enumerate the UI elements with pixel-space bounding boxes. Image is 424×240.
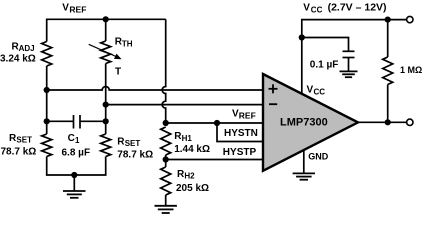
terminal VCC input circle: [407, 16, 413, 22]
svg-text:REF: REF: [239, 110, 256, 120]
node dot HYSTN branch: [214, 120, 220, 126]
svg-text:SET: SET: [125, 139, 141, 148]
svg-text:(2.7V – 12V): (2.7V – 12V): [328, 2, 387, 14]
svg-text:1.44 kΩ: 1.44 kΩ: [174, 144, 210, 155]
wire RTH top lead: [105, 19, 107, 41]
resistor RADJ: [42, 42, 52, 67]
capacitor 0.1uF: [343, 50, 355, 52]
svg-text:REF: REF: [69, 5, 86, 15]
wire VCC rail: [302, 20, 407, 94]
wire cap branch: [302, 38, 349, 52]
node VREF label: [62, 3, 86, 15]
svg-text:CC: CC: [311, 5, 323, 14]
svg-text:C: C: [68, 133, 75, 144]
svg-text:SET: SET: [16, 136, 32, 145]
svg-text:HYSTP: HYSTP: [223, 147, 257, 158]
label C1 value: [62, 133, 91, 159]
label HYSTP pin: [223, 147, 257, 158]
resistor RSET right: [101, 134, 111, 157]
wire HYSTP pin: [166, 159, 263, 161]
ground left: [63, 191, 86, 198]
wire bottom joining RSETs: [47, 157, 106, 176]
pin + symbol: [269, 84, 278, 93]
node dot RADJ / + wire: [44, 87, 50, 93]
svg-text:T: T: [115, 67, 121, 78]
svg-text:V: V: [303, 2, 310, 13]
resistor RH1: [161, 127, 171, 155]
svg-text:LMP7300: LMP7300: [280, 117, 328, 129]
node VCC label: [303, 2, 386, 15]
label GND pin: [308, 151, 329, 161]
resistor RTH thermistor: [101, 41, 111, 64]
label 1M: [400, 65, 422, 75]
resistor RSET left: [42, 134, 52, 157]
svg-text:H1: H1: [182, 134, 193, 143]
svg-text:1: 1: [75, 136, 80, 145]
label RADJ value: [0, 41, 36, 64]
resistor 1M pullup: [387, 20, 389, 57]
node dot VCC/cap branch: [299, 34, 305, 40]
op-amp U1 LMP7300 comparator: [263, 74, 358, 171]
svg-text:3.24 kΩ: 3.24 kΩ: [0, 54, 36, 65]
label VREF pin: [232, 108, 256, 120]
wire + input (hops over RTH column): [47, 87, 263, 91]
label 0.1uF: [310, 60, 339, 71]
ground RH2: [155, 206, 177, 213]
terminal output circle: [407, 119, 413, 125]
node dot VCC/1M: [385, 17, 391, 23]
capacitor C1: [47, 120, 74, 122]
wire RTH bottom lead: [105, 64, 107, 135]
svg-text:205 kΩ: 205 kΩ: [176, 183, 209, 194]
label RSET left value: [1, 133, 37, 158]
svg-text:TH: TH: [122, 39, 133, 48]
ground capacitor: [340, 71, 358, 77]
node dot bottom: [71, 172, 77, 178]
svg-text:V: V: [307, 85, 314, 96]
node dot output/1M: [385, 119, 391, 125]
label RTH: [115, 37, 133, 78]
label LMP7300: [280, 117, 328, 129]
wire GND stem: [303, 150, 305, 173]
wire - input: [106, 104, 263, 106]
label VCC pin: [307, 85, 326, 97]
thermistor arrow: [89, 44, 116, 56]
node dot RH1/RH2: [163, 156, 169, 162]
label RSET right value: [117, 136, 153, 160]
wire RADJ bottom lead: [46, 66, 48, 134]
node dot C1 right: [103, 118, 109, 124]
resistor RH2: [165, 160, 167, 168]
svg-text:78.7 kΩ: 78.7 kΩ: [117, 150, 153, 161]
svg-text:GND: GND: [308, 151, 329, 161]
svg-text:V: V: [62, 3, 69, 14]
svg-text:6.8 µF: 6.8 µF: [62, 147, 91, 158]
svg-text:HYSTN: HYSTN: [224, 128, 258, 139]
svg-text:H2: H2: [184, 172, 195, 181]
wire output: [358, 121, 407, 123]
svg-text:0.1 µF: 0.1 µF: [310, 60, 339, 71]
pin - symbol: [269, 103, 277, 105]
node dot C1 left: [44, 118, 50, 124]
svg-text:78.7 kΩ: 78.7 kΩ: [1, 147, 37, 158]
label HYSTN pin: [224, 128, 258, 139]
node dot RTH / - wire: [103, 102, 109, 108]
wire VREF vertical (hops over + and - wires): [162, 19, 166, 123]
wire VREF top rail: [47, 19, 166, 41]
wire HYSTN pin: [217, 123, 263, 142]
ground comparator: [293, 173, 315, 179]
svg-text:1 MΩ: 1 MΩ: [400, 65, 422, 75]
svg-text:CC: CC: [314, 88, 326, 97]
node junction dot top rail / RTH: [103, 16, 109, 22]
wire VREF pin: [166, 122, 263, 124]
label RH1 value: [174, 131, 210, 155]
label RH2 value: [176, 169, 209, 194]
node dot VREF/RH1: [163, 120, 169, 126]
svg-text:ADJ: ADJ: [19, 44, 35, 53]
wire ground stem left: [73, 175, 75, 191]
